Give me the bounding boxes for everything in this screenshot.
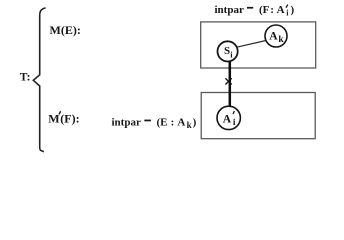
svg-text:k: k [278, 35, 284, 45]
svg-text:(F:Ai): (F:Ai) [259, 4, 295, 17]
node Ak [265, 25, 287, 47]
svg-text:i: i [233, 118, 236, 128]
svg-text:intpar: intpar [112, 117, 141, 129]
label intpar-(F:A'i) [215, 4, 295, 17]
node Si [218, 41, 238, 61]
brace T (left curly brace) [33, 8, 45, 152]
wire Si-Ak [237, 41, 266, 48]
svg-text:T:: T: [20, 71, 31, 83]
svg-text:(F):: (F): [60, 112, 79, 126]
svg-text:A: A [223, 113, 232, 125]
x mark on wire [225, 78, 231, 84]
svg-text:M: M [48, 112, 59, 126]
svg-text:intpar: intpar [215, 4, 244, 16]
box M'(F) (bottom rectangle) [201, 93, 315, 139]
svg-text:(E:Ak): (E:Ak) [157, 117, 197, 130]
svg-text:A: A [269, 31, 278, 43]
node A'i [217, 106, 240, 129]
svg-text:M(E):: M(E): [50, 23, 81, 37]
wire Si-A'i (vertical, crossing both box edges) [229, 61, 232, 107]
box M(E) (top rectangle) [201, 22, 316, 68]
label intpar-(E:Ak) [112, 117, 197, 130]
